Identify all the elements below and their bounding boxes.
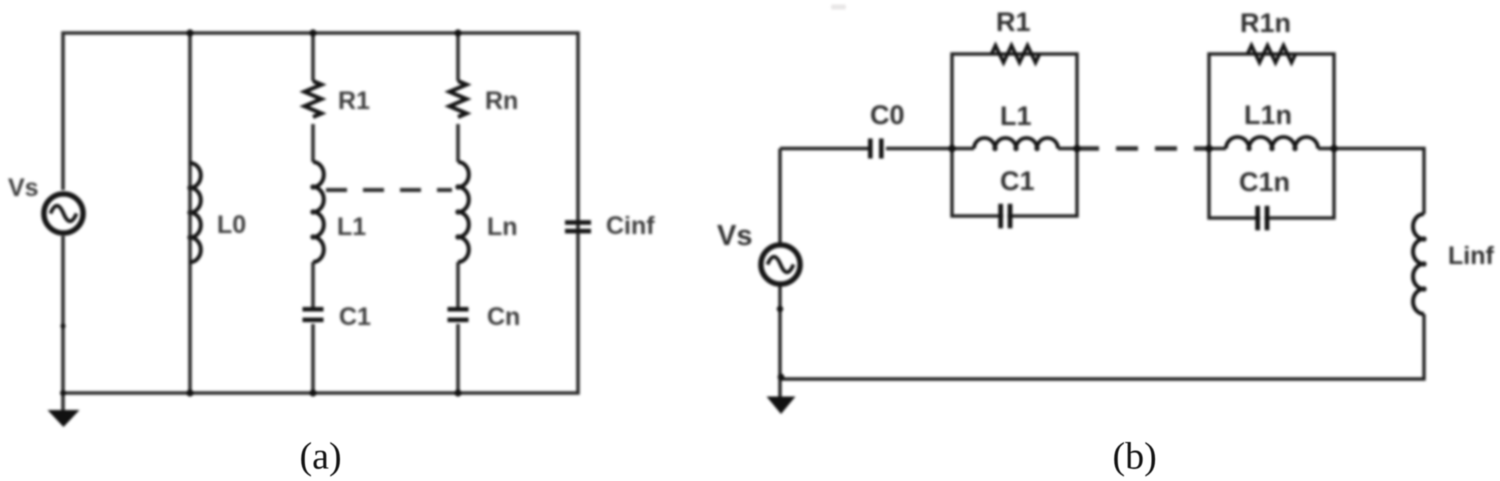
svg-text:(b): (b)	[1113, 436, 1157, 478]
svg-text:(a): (a)	[300, 436, 342, 478]
